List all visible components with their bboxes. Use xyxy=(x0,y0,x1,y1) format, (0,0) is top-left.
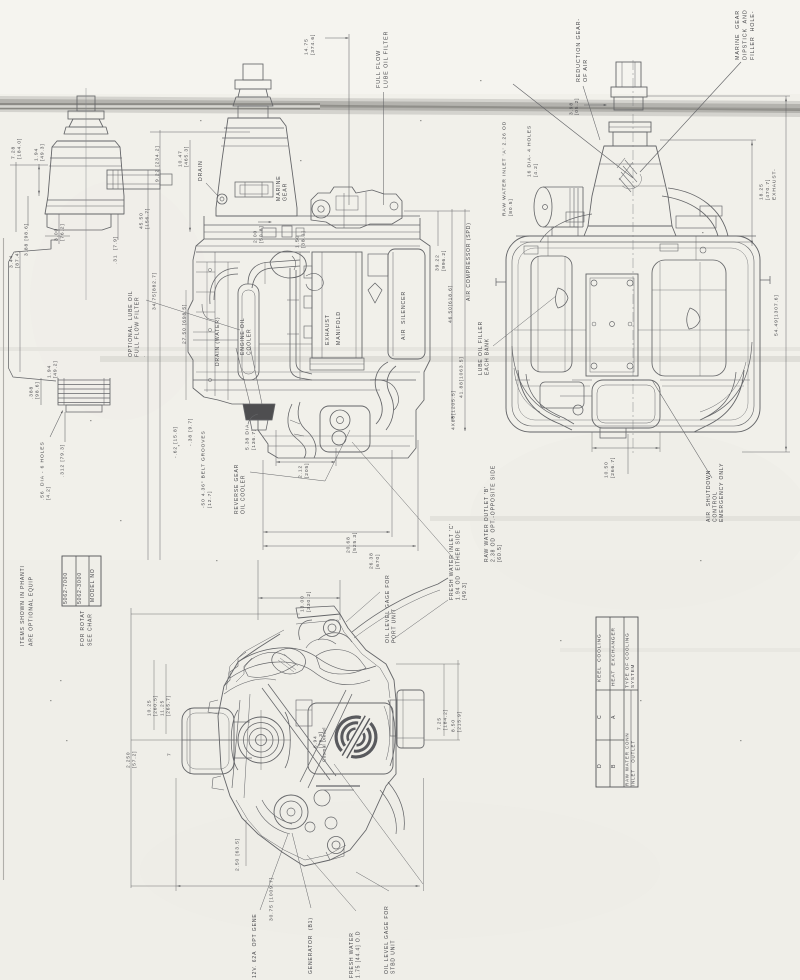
svg-text:GENERATOR (B1): GENERATOR (B1) xyxy=(308,917,314,974)
center view: bell flange xyxy=(238,106,268,118)
center bolt plate xyxy=(586,274,638,376)
svg-text:5062-7000: 5062-7000 xyxy=(63,572,69,604)
svg-text:RAW WATER CONNINLET OUTLET: RAW WATER CONNINLET OUTLET xyxy=(624,733,635,786)
tick symbol xyxy=(167,752,173,756)
right down pipe xyxy=(694,370,744,432)
lower block line xyxy=(193,379,416,381)
inner left tall cover xyxy=(531,256,572,372)
dim 46.50 [618.6] xyxy=(448,285,454,323)
dim 3.88 [98.6] xyxy=(24,223,30,256)
hose clamps on pipe xyxy=(287,299,299,301)
paper mottling xyxy=(0,560,800,980)
label AIR SHUTDOWN CONTROL xyxy=(706,463,725,522)
raw water pump cylinder xyxy=(534,187,552,227)
svg-text:MARINE GEARDIPSTICK ANDFILLE: MARINE GEARDIPSTICK ANDFILLER HOLE- xyxy=(735,9,756,60)
leader from front top to port gage xyxy=(392,600,448,640)
dim .38 [9.7] xyxy=(188,418,194,446)
label FRESH WATER FILTER xyxy=(349,931,362,978)
note ITEMS SHOWN IN PHANTOM xyxy=(20,565,35,646)
dim 45.50 [1155.7] xyxy=(139,208,151,229)
hose clamp marks xyxy=(290,420,300,424)
manifold port diamond xyxy=(368,283,382,303)
dim 13.00 [330.2] xyxy=(300,591,312,612)
model table text MODEL NO xyxy=(90,568,96,602)
label MARINE GEAR DIPSTICK AND FILLER HOLE xyxy=(735,9,756,60)
label ENGINE OIL COOLER xyxy=(240,317,253,355)
dim 2.00 [50.8] xyxy=(253,225,265,243)
center view: stack flange xyxy=(235,80,271,89)
reverse gear housing xyxy=(320,406,370,452)
svg-text:27.50 [698.5]: 27.50 [698.5] xyxy=(182,304,188,344)
bell center hatch scribble xyxy=(617,158,637,192)
right view: stack cap xyxy=(616,62,641,87)
paper left edge shadow xyxy=(3,238,5,880)
front view: rocker cover right rounded xyxy=(316,650,366,674)
dim 20.68 [525.3] xyxy=(346,532,358,553)
label OPTIONAL LUBE OIL FULL FLOW FILTER xyxy=(128,290,147,357)
dim 26.38 [670] xyxy=(369,552,381,569)
label 12V 62A OPT GENE xyxy=(252,913,258,978)
dim 40.88 xyxy=(451,390,457,430)
dim 5.38 DIA xyxy=(245,424,257,450)
dim 10.50 [266.7] xyxy=(604,457,616,478)
leader optional filter xyxy=(146,300,240,330)
leader full flow filter xyxy=(383,92,385,205)
dim 39.22 [996.2] xyxy=(435,250,447,271)
label AIR SILENCER xyxy=(401,291,407,340)
label FRESH WATER INLET C xyxy=(449,523,468,600)
engine oil cooler tube xyxy=(238,284,259,380)
left view: crank nose xyxy=(66,405,102,412)
scan streak lower xyxy=(430,516,800,521)
right inner cover xyxy=(652,260,726,376)
leader raw water inlet long xyxy=(513,84,633,178)
dim 1.50 [38.1] xyxy=(295,230,307,248)
paper speckles xyxy=(120,520,122,521)
dim 18.25 EXHAUST xyxy=(759,179,771,200)
side bolt right xyxy=(760,279,770,281)
top deck fittings xyxy=(524,246,538,254)
front view: hoses top xyxy=(318,633,352,642)
svg-text:2.50 [63.5]: 2.50 [63.5] xyxy=(235,838,241,871)
left view: marine gear output stack cap xyxy=(77,96,95,111)
center view: marine gear housing xyxy=(216,118,297,216)
deck small rect detail xyxy=(262,228,276,237)
left view: stack flange xyxy=(68,111,104,119)
left view: stack collar xyxy=(64,127,108,134)
dim 41.88 [1063.5] xyxy=(459,356,465,398)
dim 34.75 [882.7] xyxy=(152,272,158,310)
svg-text:DRAIN: DRAIN xyxy=(198,160,204,181)
label RAW WATER INLET A xyxy=(502,121,514,216)
left view: lower housing step xyxy=(47,214,111,230)
svg-text:.31 [7.9]: .31 [7.9] xyxy=(113,236,119,264)
front view: rocker covers (V) xyxy=(238,648,376,671)
exhaust manifold xyxy=(312,252,362,358)
front view: small idler xyxy=(314,790,330,806)
reverse gear V leader xyxy=(250,430,350,481)
air compressor body xyxy=(311,187,402,228)
vertical pipe pair center xyxy=(290,268,312,380)
left view: housing top flange lines xyxy=(52,146,120,148)
model table 5062-7000 xyxy=(63,572,69,604)
svg-text:EXHAUST-: EXHAUST- xyxy=(772,168,778,200)
bottom small fittings xyxy=(573,405,583,415)
oil pan xyxy=(258,404,416,458)
label OIL LEVEL GAGE PORT xyxy=(385,574,398,643)
front view: flywheel circles xyxy=(238,717,284,763)
right view: stack flange1 xyxy=(611,87,647,97)
dim 2.50 [63.5] xyxy=(235,838,241,871)
label FULL FLOW LUBE OIL FILTER xyxy=(376,31,389,88)
small loop pipe near manifold top xyxy=(306,273,323,290)
front view: diagonal braces xyxy=(262,688,330,780)
oil cooler upper elbow pipe xyxy=(248,260,300,284)
dim 2.250 xyxy=(126,751,138,768)
front view: front plate xyxy=(308,703,393,774)
dim .56 DIA 6 HOLES xyxy=(40,441,52,500)
dim 11.25 left xyxy=(160,695,172,716)
center view: stack collar xyxy=(233,97,273,106)
reverse gear circles xyxy=(330,410,350,430)
svg-text:D: D xyxy=(597,763,603,768)
left view: gear housing body xyxy=(45,141,124,214)
big top hose left xyxy=(540,214,592,242)
front view: dipstick tube right xyxy=(388,700,395,766)
centerline vertical dash-dot xyxy=(632,60,634,455)
lower hoses left xyxy=(288,404,306,458)
cooling table cell B xyxy=(611,764,617,768)
leaf ornament left xyxy=(556,288,569,308)
svg-text:C: C xyxy=(597,714,603,719)
svg-text:54.49[1307.6]: 54.49[1307.6] xyxy=(774,294,780,336)
svg-text:DRAIN (WATER): DRAIN (WATER) xyxy=(215,317,221,366)
air compressor pulley xyxy=(312,200,330,218)
dark strip under front plate xyxy=(316,785,360,787)
scan streak mid xyxy=(100,356,800,362)
label REDUCTION GEAR xyxy=(576,18,589,82)
svg-text:-.38 [9.7]: -.38 [9.7] xyxy=(188,418,194,446)
label DRAIN (WATER) xyxy=(215,317,221,366)
envelope interior shelf lines xyxy=(515,379,530,381)
front view: silhouette xyxy=(218,614,396,866)
manifold left tabs xyxy=(304,266,312,278)
svg-text:12V. 62A OPT GENE: 12V. 62A OPT GENE xyxy=(252,913,258,978)
front view: pan link xyxy=(234,721,250,723)
scanner band top xyxy=(0,96,800,117)
drain plug circle xyxy=(217,194,227,204)
pipe under silencer xyxy=(375,362,388,424)
dim .388 [98.6] lower xyxy=(29,381,41,399)
cooling table KEEL COOLING xyxy=(597,633,603,682)
side bolt left xyxy=(496,281,506,283)
right view: bell cone xyxy=(588,146,672,226)
left view: front pulley stack xyxy=(58,379,110,381)
cooling table cell A xyxy=(611,715,617,719)
dim 10.25 left xyxy=(147,695,159,716)
cooling table HEAT EXCHANGER xyxy=(611,627,617,686)
svg-text:HEAT EXCHANGER: HEAT EXCHANGER xyxy=(611,627,617,686)
cylinder head lines xyxy=(196,251,310,253)
front view: fresh water filter xyxy=(397,690,424,748)
dim 8.50 [215.9] xyxy=(451,711,463,732)
dim 1.94 [49.2] lower xyxy=(47,360,59,378)
front view: intake elbow blob xyxy=(272,648,306,674)
svg-text:.312 [79.3]: .312 [79.3] xyxy=(60,444,66,477)
cooling table box xyxy=(596,617,638,787)
right view: neck2 xyxy=(613,132,647,146)
label REVERSE GEAR OIL COOLER xyxy=(234,464,247,514)
front view: upper-left stepped bracket xyxy=(224,652,246,686)
pump bracket xyxy=(552,227,578,236)
dim .31 [7.9] xyxy=(113,236,119,264)
svg-text:41.88[1063.5]: 41.88[1063.5] xyxy=(459,356,465,398)
crossover pipe left xyxy=(214,274,238,300)
label LUBE OIL FILLER EACH BANK xyxy=(478,321,491,375)
envelope mid horizontal segments xyxy=(514,329,586,331)
label belt grooves xyxy=(201,430,213,508)
svg-text:4X88[1205.5]: 4X88[1205.5] xyxy=(451,390,457,430)
leader air shutdown xyxy=(652,380,712,478)
dim 30.75 [1009.7] xyxy=(269,877,275,921)
right view: stack neck xyxy=(614,97,643,110)
front view: top mount bracket xyxy=(296,606,340,618)
air silencer xyxy=(388,249,425,359)
leaf ornament right xyxy=(687,308,700,329)
left view centerline xyxy=(85,88,87,300)
dim 1.94 [49.3] xyxy=(34,143,46,161)
left view: housing mid line xyxy=(47,199,124,201)
left view: engine phantom outline xyxy=(9,240,59,381)
front view: oil gage tube loop top right xyxy=(352,578,448,632)
label RAW WATER OUTLET B xyxy=(484,465,503,562)
main block outline right xyxy=(416,239,430,430)
scanner band left double line xyxy=(0,103,320,105)
dim .312 [79.3] xyxy=(60,444,66,477)
svg-text:MODEL NO: MODEL NO xyxy=(90,568,96,602)
label DRAIN xyxy=(198,160,204,181)
manifold lower plate xyxy=(310,358,364,370)
label GENERATOR (B1) xyxy=(308,917,314,974)
front view: injection pump detail xyxy=(296,700,312,726)
main block outline left xyxy=(188,239,244,404)
svg-text:5062-3000: 5062-3000 xyxy=(77,572,83,604)
svg-text:46.50[618.6]: 46.50[618.6] xyxy=(448,285,454,323)
dim 27.50 [698.5] xyxy=(182,304,188,344)
dim .62 [15.8] xyxy=(173,426,179,458)
label 16 DIA 4 HOLES xyxy=(527,125,539,177)
dim 7.25 [184.2] xyxy=(437,709,449,730)
left view: output shaft xyxy=(107,170,160,189)
svg-text:A: A xyxy=(611,715,617,719)
svg-text:AIR COMPRESSOR (SPD): AIR COMPRESSOR (SPD) xyxy=(466,222,472,301)
dim 14.75 [374.6] xyxy=(304,34,316,55)
svg-text:B: B xyxy=(611,764,617,768)
label EXHAUST MANIFOLD xyxy=(325,311,342,345)
front view: generator circle xyxy=(274,795,308,829)
front view: lower right arm xyxy=(388,782,404,830)
front view: inner contour xyxy=(296,620,390,698)
dim 6.94 xyxy=(312,731,323,748)
svg-text:34.75[882.7]: 34.75[882.7] xyxy=(152,272,158,310)
cooling table cell C xyxy=(597,714,603,719)
right deck step right xyxy=(676,216,716,228)
center view: housing window xyxy=(235,182,273,197)
crank pulley dark xyxy=(243,404,275,420)
center view: stack neck xyxy=(238,89,268,97)
engine envelope rounded xyxy=(506,236,760,432)
leader dipstick long xyxy=(640,62,741,172)
front view: left side tabs xyxy=(208,700,218,714)
front view: bottom mount circle xyxy=(328,837,345,854)
cooling table header TYPE OF COOLING xyxy=(625,632,636,688)
block inner verticals xyxy=(214,252,216,396)
small fitting left of bell xyxy=(566,212,584,222)
front view: brand medallion (broken-arc logo with slash) xyxy=(327,707,384,767)
corner pipe bottom-right arcs xyxy=(704,342,752,418)
front view: left pan xyxy=(182,708,234,774)
svg-text:FRESH WATER1.75 [44.4] O.D: FRESH WATER1.75 [44.4] O.D xyxy=(349,931,362,978)
front view: lower left pipes xyxy=(262,800,292,824)
front view: small pump circles bottom xyxy=(305,822,315,832)
model table 5062-3000 xyxy=(77,572,83,604)
right deck ledge xyxy=(516,235,756,237)
oil pan bottom xyxy=(592,380,660,428)
label Cosmal Diesel small xyxy=(321,727,326,762)
svg-text:AIR SILENCER: AIR SILENCER xyxy=(401,291,407,340)
label MARINE GEAR xyxy=(276,175,288,201)
center view: marine gear stack cap xyxy=(243,64,263,80)
model number table box xyxy=(62,556,101,606)
right view: stack band xyxy=(609,122,651,132)
belt lines from pulley xyxy=(236,348,250,404)
note FOR ROTAT SEE CHAR xyxy=(80,610,94,646)
hose bulge xyxy=(270,251,306,278)
dim 10.47 [465.3] xyxy=(178,146,190,167)
dim 3.44 [87.4] xyxy=(9,250,21,268)
paper top margin lighter xyxy=(0,0,800,94)
dim 3.00 [76.2] xyxy=(54,223,66,241)
corner pipe bottom-left arcs xyxy=(512,346,560,418)
mid block shelf xyxy=(193,339,238,341)
leader fresh water inlet xyxy=(352,442,455,560)
elbow at pan left xyxy=(248,414,258,424)
silencer top port xyxy=(368,254,388,276)
left down pipe xyxy=(518,370,572,430)
front view: rocker cover left rounded xyxy=(244,652,296,677)
svg-text:7: 7 xyxy=(167,752,173,756)
front cover rib ladder xyxy=(196,271,215,273)
big top hose right xyxy=(662,196,718,236)
dim 7.28 [184.0] xyxy=(11,138,23,159)
bottom dim lines xyxy=(262,460,264,550)
right cover inner vertical xyxy=(699,262,701,376)
svg-text:3.88 [98.6]: 3.88 [98.6] xyxy=(24,223,30,256)
dim 3.98 xyxy=(569,98,581,115)
scan streak bottom table xyxy=(560,648,800,652)
block small bolts xyxy=(208,268,211,271)
label OIL LEVEL GAGE STBD xyxy=(384,905,397,974)
dim 54.49 [1307.6] xyxy=(774,294,780,336)
front view: housing around flywheel xyxy=(231,710,238,770)
right view: bell skirt xyxy=(584,226,676,236)
cooling table cell D xyxy=(597,763,603,768)
svg-text:KEEL COOLING: KEEL COOLING xyxy=(597,633,603,682)
starter bulge right low xyxy=(370,380,399,410)
cooling table header RAW WATER CONN xyxy=(624,733,635,786)
engine deck xyxy=(204,216,420,239)
dim 9.22 [234.2] xyxy=(155,145,161,182)
svg-text:FOR ROTATSEE CHAR: FOR ROTATSEE CHAR xyxy=(80,610,94,646)
left view: stack neck xyxy=(69,119,103,127)
svg-text:-.62 [15.8]: -.62 [15.8] xyxy=(173,426,179,458)
dim 2.12 [205] xyxy=(298,463,310,478)
label AIR COMPRESSOR (SPD) xyxy=(466,222,472,301)
